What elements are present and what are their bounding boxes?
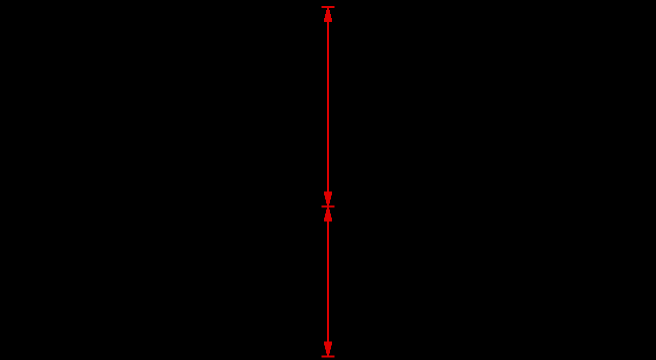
upper span bottom arrowhead (points down to middle tick) [324, 192, 332, 204]
wire: upper dimension line (top span) [327, 8, 329, 207]
wire: lower dimension line (bottom span) [327, 208, 329, 357]
lower span bottom arrowhead (points down to bottom tick) [324, 342, 332, 354]
lower span top arrowhead (points up to middle tick) [324, 210, 332, 222]
bottom extension tick [321, 356, 334, 358]
middle extension tick [321, 206, 334, 208]
upper span top arrowhead (points up to top tick) [324, 10, 332, 22]
top extension tick [321, 6, 334, 8]
